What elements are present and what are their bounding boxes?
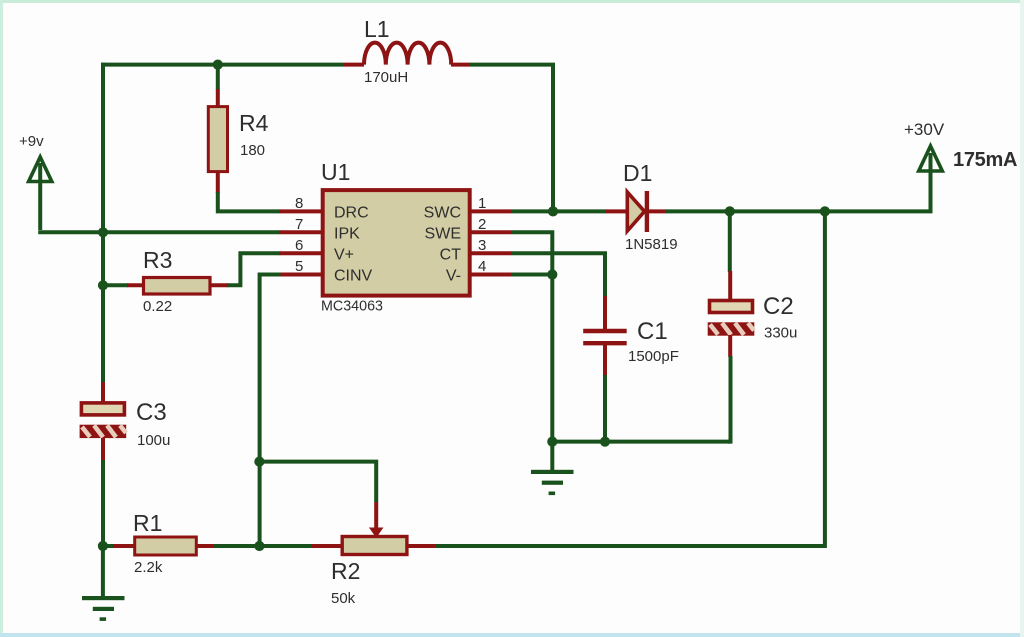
wire: R2 wiper red segment with arrowhead xyxy=(370,502,383,537)
wire: C3 bottom green to R1 rail xyxy=(101,460,105,546)
pin 7 stub IPK xyxy=(280,230,323,234)
svg-text:CINV: CINV xyxy=(334,268,373,285)
node: junction +9v rail xyxy=(98,227,108,237)
wire: R4 top green stub xyxy=(216,65,220,90)
node: junction ground rail C1 xyxy=(600,437,610,447)
node: junction CINV rail at R1 xyxy=(254,541,264,551)
wire: C3 bottom red stub xyxy=(101,438,105,461)
power +9v arrow xyxy=(29,157,52,230)
wire: pin 4 V- to SWE rail xyxy=(511,273,552,277)
svg-text:MC34063: MC34063 xyxy=(321,299,383,315)
wire: R4 top red stub xyxy=(216,89,220,107)
wire: +9v to IPK pin 7 xyxy=(38,230,280,234)
node: junction pin1 / L1 xyxy=(548,206,558,216)
svg-text:IPK: IPK xyxy=(334,226,360,243)
svg-text:V+: V+ xyxy=(334,247,354,264)
wire: R1 to R2 rail xyxy=(214,544,312,548)
svg-text:DRC: DRC xyxy=(334,205,369,222)
svg-text:R2: R2 xyxy=(331,558,360,584)
svg-text:CT: CT xyxy=(440,247,462,264)
capacitor C1 xyxy=(583,331,627,343)
node: junction top rail R4 xyxy=(213,60,223,70)
svg-text:330u: 330u xyxy=(764,325,797,342)
node: junction output C2 xyxy=(725,206,735,216)
wire: R3 to V+ pin 6 elbow xyxy=(227,253,281,285)
wire: output rail to +30V corner xyxy=(666,153,931,211)
wire: C1 bottom red stub xyxy=(603,345,607,376)
pin 5 stub CINV xyxy=(280,273,323,277)
capacitor C3 positive plate xyxy=(81,403,124,415)
svg-text:170uH: 170uH xyxy=(364,69,408,86)
svg-text:C3: C3 xyxy=(136,399,167,426)
wire: R4 bottom red stub xyxy=(216,172,220,193)
wire: R3 right red stub xyxy=(210,283,228,287)
wire: R3 left green stub xyxy=(103,283,128,287)
node: junction ground rail left xyxy=(547,437,557,447)
wire: C1 bottom green to ground rail xyxy=(603,375,607,442)
wire: pin 3 CT elbow down to C1 xyxy=(511,253,605,297)
svg-text:V-: V- xyxy=(446,268,461,285)
wire: R3 left red stub xyxy=(127,283,144,287)
wire: ground rail horizontal xyxy=(552,440,730,444)
capacitor C2 positive plate xyxy=(710,301,753,313)
capacitor C2 negative plate (hatched) xyxy=(708,322,755,335)
inductor L1 xyxy=(364,43,451,65)
svg-text:8: 8 xyxy=(295,195,303,212)
svg-text:2: 2 xyxy=(478,216,486,233)
svg-text:3: 3 xyxy=(478,237,486,254)
wire: R2 left red stub xyxy=(312,544,344,548)
svg-text:0.22: 0.22 xyxy=(143,298,172,315)
svg-text:4: 4 xyxy=(478,258,486,275)
svg-text:2.2k: 2.2k xyxy=(134,559,163,576)
wire: C2 bottom red stub xyxy=(728,335,732,357)
wire: C1 top red stub xyxy=(603,296,607,330)
svg-text:R4: R4 xyxy=(239,110,269,136)
wire: C2 bottom green to ground rail xyxy=(728,356,731,442)
wire: pin 1 SWC to diode xyxy=(511,209,607,213)
pin 1 stub SWC xyxy=(471,209,512,213)
wire: R2 wiper horizontal from CINV rail xyxy=(259,462,376,502)
resistor R4 xyxy=(208,107,227,172)
svg-text:50k: 50k xyxy=(331,590,356,607)
power +30V arrow xyxy=(919,146,943,171)
wire: top rail from L1 to right corner, down to pin 1 xyxy=(469,65,553,209)
svg-text:6: 6 xyxy=(295,237,303,254)
svg-text:+30V: +30V xyxy=(904,120,945,139)
pin 3 stub CT xyxy=(471,251,512,255)
wire: bottom rail R2 to right, up to output xyxy=(435,213,825,546)
wire: pin 5 CINV to left rail down xyxy=(260,275,281,547)
wire: diode anode red stub xyxy=(606,209,626,213)
svg-text:1N5819: 1N5819 xyxy=(625,236,678,253)
wire: diode cathode red stub xyxy=(648,209,667,213)
svg-text:175mA: 175mA xyxy=(953,149,1017,171)
svg-text:+9v: +9v xyxy=(19,133,44,150)
resistor R1 xyxy=(135,537,197,555)
svg-text:180: 180 xyxy=(240,142,265,159)
capacitor C3 negative plate (hatched) xyxy=(80,425,127,438)
svg-text:100u: 100u xyxy=(137,432,170,449)
svg-text:7: 7 xyxy=(295,216,303,233)
svg-text:1500pF: 1500pF xyxy=(628,348,679,365)
pin 6 stub V+ xyxy=(280,251,323,255)
wire: C2 top red stub xyxy=(728,271,732,301)
wire: R1 right red stub xyxy=(196,544,215,548)
resistor R3 xyxy=(144,278,211,295)
wire: R2 right red stub xyxy=(407,544,436,548)
pin 4 stub V- xyxy=(471,273,512,277)
ground symbol middle xyxy=(531,442,574,496)
svg-text:D1: D1 xyxy=(623,160,652,186)
wire: pin 2 SWE down to ground rail xyxy=(511,232,552,441)
svg-text:U1: U1 xyxy=(321,159,350,185)
ground symbol bottom left xyxy=(82,546,125,621)
pin 2 stub SWE xyxy=(471,230,512,234)
wire: top rail from left corner to L1 xyxy=(101,63,343,67)
node: junction pin 4 on SWE rail xyxy=(547,269,557,279)
svg-text:C2: C2 xyxy=(763,293,794,320)
wire: R4 bottom elbow to pin 8 xyxy=(218,192,281,211)
node: junction CINV rail at R2 wiper wire xyxy=(254,457,264,467)
wire: red stub left of L1 xyxy=(343,63,364,67)
svg-text:R1: R1 xyxy=(133,510,162,536)
wire: R1 left green stub xyxy=(103,544,114,548)
wire: C2 top green stub xyxy=(728,211,732,272)
svg-text:5: 5 xyxy=(295,258,303,275)
diode D1 xyxy=(627,191,647,232)
node: junction R1 left xyxy=(98,541,108,551)
svg-text:L1: L1 xyxy=(364,16,390,42)
svg-text:SWC: SWC xyxy=(424,205,461,222)
node: junction left rail R3 xyxy=(98,280,108,290)
node: junction output right rail xyxy=(820,206,830,216)
svg-text:1: 1 xyxy=(478,195,486,212)
potentiometer R2 body xyxy=(342,537,407,555)
svg-text:R3: R3 xyxy=(143,247,172,273)
svg-text:C1: C1 xyxy=(637,318,668,345)
svg-text:SWE: SWE xyxy=(425,226,461,243)
IC U1 body xyxy=(323,190,470,296)
wire: red stub right of L1 xyxy=(451,63,469,67)
wire: C3 top red stub xyxy=(101,382,105,403)
wire: R1 left red stub xyxy=(113,544,135,548)
pin 8 stub DRC xyxy=(280,209,323,213)
wire: left rail vertical xyxy=(101,63,105,383)
